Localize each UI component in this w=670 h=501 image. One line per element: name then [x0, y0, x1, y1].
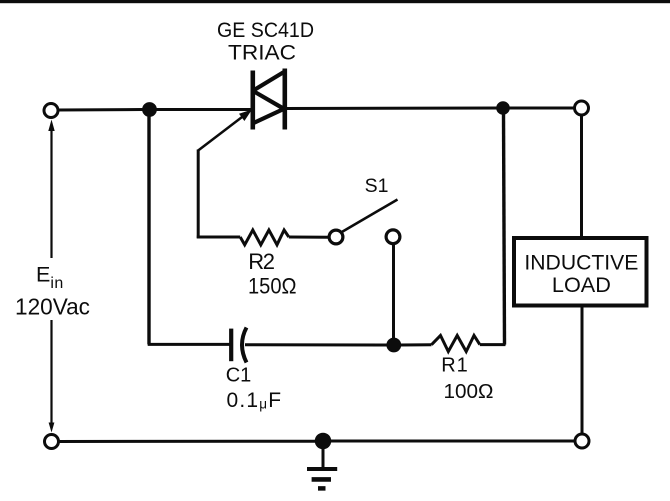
terminal (open circle) top-left input	[44, 104, 58, 118]
terminal (open circle) bottom-right	[575, 434, 589, 448]
node: junction dot mid (C1/R1/S1)	[386, 338, 401, 353]
capacitor C1 right plate (curved)	[242, 328, 247, 363]
wire: corner to C1 left plate	[148, 343, 230, 346]
svg-text:INDUCTIVE: INDUCTIVE	[524, 251, 638, 275]
svg-text:0.1μF: 0.1μF	[227, 389, 283, 412]
switch S1 arm	[342, 200, 398, 233]
wire: top terminal down to load box	[580, 115, 583, 238]
svg-text:100Ω: 100Ω	[444, 380, 494, 403]
TRIAC U1: shared diagonal	[253, 91, 284, 109]
node: ground junction dot	[315, 433, 332, 450]
svg-text:120Vac: 120Vac	[15, 293, 90, 319]
load box INDUCTIVE LOAD	[514, 238, 647, 306]
wire bottom left: terminal to ground node	[59, 440, 316, 443]
wire: TRIAC MT1 to right junction	[287, 107, 504, 111]
svg-text:GE SC41D: GE SC41D	[217, 19, 314, 42]
ground bar 3	[318, 486, 326, 491]
TRIAC U1: upper triangle edge	[253, 71, 286, 91]
wire: right junction to load terminal	[503, 107, 574, 110]
wire bottom right: ground node to right terminal	[331, 440, 575, 443]
svg-text:LOAD: LOAD	[552, 273, 611, 297]
resistor R2 zigzag	[240, 230, 289, 245]
arrowhead up (Ein)	[48, 120, 54, 132]
node: junction dot top-left	[142, 102, 157, 117]
TRIAC U1: MT1 bar (right)	[282, 69, 287, 130]
TRIAC U1: lower triangle edge	[254, 109, 284, 123]
arrowhead down (Ein)	[49, 423, 55, 433]
node: junction dot top-right	[496, 101, 510, 115]
wire top-left: input terminal to left junction	[57, 108, 143, 112]
ground bar 2	[312, 477, 331, 482]
wire: C1 to mid junction	[245, 343, 388, 346]
svg-text:TRIAC: TRIAC	[228, 42, 296, 65]
svg-text:150Ω: 150Ω	[248, 274, 297, 299]
wire: S1 pole down to mid junction	[392, 245, 395, 339]
Ein measurement arrow line upper segment	[50, 126, 52, 258]
wire: R1 to right vertical	[480, 343, 506, 346]
terminal (open circle) top-right	[575, 101, 589, 115]
wire: left junction to TRIAC MT2	[149, 108, 251, 111]
wire: load box down to bottom terminal	[581, 306, 584, 434]
wire: gate corner to R2	[197, 236, 240, 239]
Ein measurement arrow line lower segment	[50, 320, 52, 425]
resistor R1 zigzag	[432, 336, 480, 352]
wire: gate diagonal to TRIAC	[198, 114, 247, 151]
svg-text:S1: S1	[365, 175, 389, 197]
svg-text:C1: C1	[226, 365, 252, 387]
svg-text:R1: R1	[441, 354, 469, 376]
ground stem	[322, 449, 325, 467]
svg-text:R2: R2	[248, 249, 275, 274]
wire: R2 to S1 left contact	[289, 236, 329, 239]
gate arrowhead	[239, 110, 252, 122]
border bar top	[0, 0, 670, 3]
wire: mid junction to R1	[400, 343, 432, 346]
TRIAC U1: MT2 bar (left)	[251, 71, 256, 130]
terminal (open circle) bottom-left	[45, 435, 59, 449]
ground bar 1	[307, 467, 337, 471]
wire: left junction down to C1 (vertical)	[147, 116, 150, 344]
switch S1 left contact (open circle)	[329, 230, 343, 244]
wire: gate vertical	[197, 150, 200, 239]
wire: right vertical (top junction down to R1)	[504, 113, 505, 345]
switch S1 right contact (open circle)	[386, 230, 400, 244]
capacitor C1 left plate	[229, 329, 233, 362]
